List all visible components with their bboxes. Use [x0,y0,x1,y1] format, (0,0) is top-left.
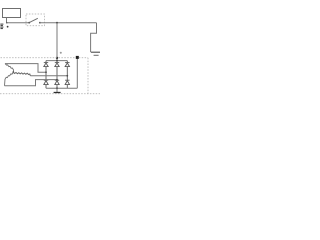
diode D1 [44,61,48,81]
bridge top bus [46,60,67,62]
stator phase A wire [5,64,46,73]
battery symbol [0,24,3,29]
star point [12,71,14,73]
wire bus to bridge vertical [56,23,58,61]
junction phase C [56,79,58,81]
junction phase B [66,75,68,77]
diode D3 [65,61,69,81]
corner node [6,22,8,24]
switch S1 left terminal [28,22,30,24]
stator phase C wire [5,80,58,86]
bridge bottom bus [46,87,77,89]
wire main bus left [7,22,29,24]
output terminal B+ [76,56,79,59]
wire main bus right [40,22,97,24]
switch S1 right terminal [39,22,41,24]
alternator dashed enclosure right [87,58,89,94]
terminal on enclosure edge [56,57,58,59]
wire output riser [76,58,78,89]
junction node on bus [56,22,58,24]
stator winding B (horizontal coil) [13,72,30,76]
stator winding A (diagonal coil) [5,64,14,73]
stator phase B wire [30,75,67,77]
stray label dot [60,52,62,54]
ignition switch dashed box [26,14,45,26]
voltage regulator box [3,9,21,18]
chassis dashed line bottom [0,93,100,95]
junction top bus [56,60,58,62]
diode D5 [55,80,59,88]
node dot near battery [7,26,9,28]
junction bottom bus [56,87,58,89]
ground bar [54,92,61,94]
ground stub [56,88,58,92]
diode D6 [65,80,69,88]
diode D2 [55,61,59,81]
wire bus drop right side [91,23,97,52]
battery B2 plates right [91,51,100,53]
alternator dashed enclosure top [1,57,89,59]
wire regulator to bus [6,18,8,23]
switch S1 arm [30,18,38,22]
junction phase A [45,71,47,73]
stator winding C (diagonal coil) [5,72,14,86]
diode D4 [44,80,48,88]
